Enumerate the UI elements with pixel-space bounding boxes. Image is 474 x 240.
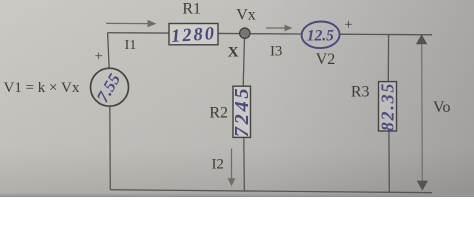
resistor R1 box: [169, 24, 218, 45]
wire top horizontal left of V2: [108, 33, 302, 34]
svg-text:12.5: 12.5: [307, 27, 334, 44]
svg-text:1280: 1280: [170, 24, 216, 47]
svg-text:82.35: 82.35: [377, 82, 397, 132]
wire top horizontal right of V2: [340, 33, 432, 36]
wire left vertical (V1 circle to bottom corner): [109, 106, 112, 190]
resistor R2 box: [233, 86, 251, 137]
svg-text:I2: I2: [211, 156, 224, 172]
svg-text:R3: R3: [351, 83, 370, 100]
wire R3 branch lower: [388, 131, 390, 192]
node X (Vx): [240, 28, 250, 38]
dependent source V2 ellipse: [301, 21, 340, 49]
voltage source V1 circle: [91, 68, 129, 106]
current arrow I1: [106, 22, 149, 24]
svg-text:X: X: [228, 44, 239, 60]
resistor R3 box: [379, 82, 397, 131]
Vo measurement double arrow: [421, 41, 424, 184]
wire bottom horizontal: [110, 190, 432, 193]
current arrow I3: [266, 27, 286, 29]
svg-text:I1: I1: [125, 38, 137, 53]
svg-text:+: +: [344, 17, 352, 33]
wire R2 branch upper: [243, 33, 244, 86]
bottom photo edge band: [0, 193, 474, 197]
svg-text:7245: 7245: [231, 86, 253, 137]
wire left vertical (top corner to V1 circle): [108, 33, 110, 68]
svg-text:V1 = k × Vx: V1 = k × Vx: [4, 80, 80, 96]
svg-text:I3: I3: [270, 44, 283, 60]
svg-text:+: +: [95, 49, 103, 65]
current arrow I2: [231, 149, 233, 180]
svg-text:R2: R2: [209, 105, 228, 122]
svg-text:Vo: Vo: [433, 99, 451, 116]
svg-text:Vx: Vx: [236, 7, 256, 24]
svg-text:V2: V2: [316, 51, 336, 68]
wire R3 branch upper: [387, 35, 389, 82]
svg-text:R1: R1: [182, 1, 201, 18]
wire R2 branch lower: [243, 137, 246, 190]
